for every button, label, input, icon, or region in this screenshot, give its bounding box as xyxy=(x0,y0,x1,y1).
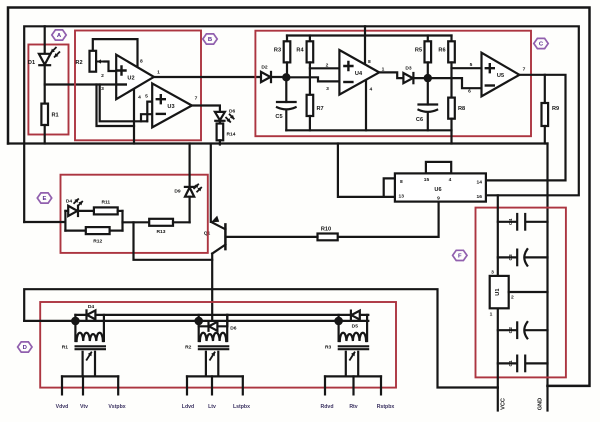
svg-text:Lstpbx: Lstpbx xyxy=(233,404,250,410)
svg-text:R1: R1 xyxy=(52,113,59,119)
U4 output wire xyxy=(379,72,403,78)
R2 terminal bracket xyxy=(187,375,243,377)
E entry wire xyxy=(24,221,65,223)
svg-text:R2: R2 xyxy=(185,345,192,351)
svg-text:F: F xyxy=(458,254,462,260)
svg-text:U2: U2 xyxy=(127,75,134,81)
photodiode D1 xyxy=(39,54,51,65)
svg-text:R12: R12 xyxy=(93,239,102,245)
resistor R5 xyxy=(427,36,429,42)
svg-text:R1: R1 xyxy=(62,345,69,351)
caps left bus lower xyxy=(497,308,499,387)
wire D1-R1 xyxy=(44,65,46,104)
svg-text:Vstpbx: Vstpbx xyxy=(108,404,125,410)
svg-text:A: A xyxy=(57,33,62,39)
svg-text:Ltv: Ltv xyxy=(208,404,216,410)
U4 pin4 wire xyxy=(365,80,367,130)
svg-text:C4: C4 xyxy=(508,218,514,225)
GND stub xyxy=(546,386,548,411)
svg-text:D9: D9 xyxy=(174,189,181,195)
svg-text:Vdvd: Vdvd xyxy=(56,404,69,410)
wire D2-node xyxy=(271,76,286,78)
svg-text:C3: C3 xyxy=(508,254,514,261)
svg-text:D2: D2 xyxy=(261,64,268,70)
R3 core bars xyxy=(339,345,368,347)
R6-R8 vertical wire xyxy=(450,62,452,97)
base wire R10-Q1 xyxy=(228,236,318,238)
potentiometer R2 xyxy=(90,51,97,72)
svg-text:R4: R4 xyxy=(296,48,304,54)
svg-text:R3: R3 xyxy=(325,345,332,351)
node2 junction xyxy=(424,74,432,82)
U5 plus wire xyxy=(452,67,482,69)
R2 primary left wire xyxy=(198,315,200,341)
svg-text:3: 3 xyxy=(326,86,329,92)
red box F xyxy=(476,208,566,378)
wire D3-node2 xyxy=(413,77,427,79)
C bottom rail xyxy=(286,129,451,131)
resistor R14 xyxy=(219,121,221,124)
node1 junction xyxy=(282,73,290,81)
op-amp U5 xyxy=(482,53,520,97)
hex label E xyxy=(37,193,51,203)
resistor R3 xyxy=(286,36,288,42)
svg-text:U4: U4 xyxy=(355,71,363,77)
lower transformer bus xyxy=(24,320,368,322)
R1 primary left wire xyxy=(74,315,76,341)
svg-text:D6: D6 xyxy=(230,326,237,332)
svg-text:D3: D3 xyxy=(405,66,412,72)
svg-text:1: 1 xyxy=(490,312,493,318)
R1 primary right wire xyxy=(103,315,105,341)
svg-text:R13: R13 xyxy=(157,229,166,235)
U3 output wire xyxy=(192,106,220,112)
svg-text:2: 2 xyxy=(511,295,514,301)
U4 minus jog wire xyxy=(286,77,339,81)
svg-text:R9: R9 xyxy=(552,106,559,112)
resistor R13 xyxy=(149,219,173,226)
resistor R10 xyxy=(318,234,338,241)
svg-text:7: 7 xyxy=(195,96,198,102)
gnd right vertical xyxy=(546,144,548,386)
svg-text:8: 8 xyxy=(140,59,143,65)
svg-text:VCC: VCC xyxy=(501,398,507,410)
svg-text:8: 8 xyxy=(400,179,403,185)
svg-text:C: C xyxy=(539,42,544,48)
resistor R9 xyxy=(544,75,546,103)
R2 wiper arrow wire xyxy=(105,62,117,72)
U6 pin9 wire xyxy=(338,202,439,237)
resistor R12 branch xyxy=(65,230,85,232)
main ground bus xyxy=(8,142,548,144)
svg-text:5: 5 xyxy=(470,62,473,68)
svg-text:R5: R5 xyxy=(415,48,422,54)
R1 terminal bracket xyxy=(62,375,118,377)
R2 primary right wire xyxy=(226,315,228,341)
svg-text:4: 4 xyxy=(449,177,452,183)
svg-text:C1: C1 xyxy=(508,360,514,367)
wire R1 bottom xyxy=(44,125,46,144)
R2 secondary wires xyxy=(205,352,207,377)
svg-text:2: 2 xyxy=(326,62,329,68)
diode D2 xyxy=(261,72,270,82)
svg-text:6: 6 xyxy=(146,119,149,125)
svg-text:R6: R6 xyxy=(438,48,445,54)
svg-text:Vtv: Vtv xyxy=(80,404,88,410)
red box D xyxy=(40,302,396,388)
R2 primary coil xyxy=(200,333,226,341)
U1 pin2 wire xyxy=(509,291,548,293)
svg-text:15: 15 xyxy=(424,177,430,183)
R1 secondary wires xyxy=(81,352,83,377)
LED D9 xyxy=(185,186,194,188)
E right node wire xyxy=(121,211,123,231)
svg-text:U1: U1 xyxy=(495,289,501,296)
E left node wire xyxy=(64,211,66,231)
wire D4-R11 xyxy=(78,210,94,212)
hex label A xyxy=(52,30,66,40)
resistor R8 xyxy=(448,98,455,119)
R1 core bars xyxy=(76,345,105,347)
svg-text:C2: C2 xyxy=(508,327,514,334)
transistor Q1 xyxy=(224,224,227,249)
svg-text:2: 2 xyxy=(101,73,104,79)
U4 plus wire xyxy=(310,67,340,69)
svg-text:4: 4 xyxy=(370,87,373,93)
U4 pin8 wire xyxy=(364,26,366,64)
svg-text:8: 8 xyxy=(368,59,371,65)
op-amp U4 xyxy=(339,50,379,95)
svg-text:6: 6 xyxy=(468,88,471,94)
svg-text:3: 3 xyxy=(491,270,494,276)
svg-text:D1: D1 xyxy=(28,60,35,66)
op-amp U2 xyxy=(116,55,154,99)
U2 pin4 wire xyxy=(133,89,135,144)
node A out wire xyxy=(45,83,117,85)
hex label C xyxy=(534,38,548,48)
svg-text:GND: GND xyxy=(538,398,544,410)
upper transformer bus xyxy=(75,314,368,316)
svg-text:Ldvd: Ldvd xyxy=(182,404,194,410)
svg-text:C5: C5 xyxy=(275,114,282,120)
E bottom wire to collector xyxy=(134,222,213,259)
VCC stub xyxy=(497,388,499,411)
R3 primary left wire xyxy=(338,315,340,341)
R3 primary coil xyxy=(340,333,366,341)
U5 output loop wire xyxy=(486,75,566,181)
U2 feedback wires xyxy=(97,85,135,127)
resistor R4 xyxy=(309,36,311,42)
svg-text:D4: D4 xyxy=(66,199,73,205)
resistor R6 xyxy=(450,36,452,42)
hex label F xyxy=(453,250,467,260)
R3 secondary wires xyxy=(345,352,347,377)
R2 core bars xyxy=(199,345,228,347)
svg-text:E: E xyxy=(43,196,47,202)
diode D3 xyxy=(403,73,412,83)
LED D6 xyxy=(215,112,225,120)
D9 bottom wire xyxy=(189,197,191,223)
U6 left bracket wire xyxy=(338,144,395,197)
svg-text:1: 1 xyxy=(157,70,160,76)
resistor R11 xyxy=(94,207,118,214)
svg-text:R8: R8 xyxy=(458,106,465,112)
C top rail xyxy=(287,34,452,36)
R4-R7 vertical wire xyxy=(309,62,311,94)
svg-text:U5: U5 xyxy=(497,73,504,79)
inner VCC top rail xyxy=(24,26,579,222)
svg-text:U6: U6 xyxy=(434,187,441,193)
svg-text:3: 3 xyxy=(101,86,104,92)
mid wire to R13 xyxy=(123,221,150,223)
svg-text:R11: R11 xyxy=(101,200,110,206)
svg-text:U3: U3 xyxy=(167,104,174,110)
caps left bus upper xyxy=(497,195,499,276)
LED D4 xyxy=(65,210,68,212)
capacitor C4 xyxy=(498,221,517,223)
capacitor C2 xyxy=(498,329,517,331)
op-amp U3 xyxy=(152,83,192,127)
resistor R7 xyxy=(307,95,314,116)
R1 primary coil xyxy=(77,333,103,341)
svg-text:R2: R2 xyxy=(75,60,82,66)
svg-text:B: B xyxy=(208,37,212,43)
svg-text:D4: D4 xyxy=(88,304,95,310)
capacitor C5 xyxy=(285,77,287,102)
svg-text:14: 14 xyxy=(477,180,483,186)
D9 wire from bus xyxy=(189,144,191,187)
IC U6 xyxy=(395,173,486,201)
svg-text:C6: C6 xyxy=(416,117,423,123)
R2 top loop wire xyxy=(93,39,138,67)
Q1 emitter wire xyxy=(210,145,212,222)
svg-text:D5: D5 xyxy=(352,324,359,330)
svg-text:13: 13 xyxy=(399,193,405,199)
relay R3 node xyxy=(334,317,343,326)
R14 bottom wire xyxy=(219,140,221,144)
regulator U1 xyxy=(490,276,509,308)
svg-text:R7: R7 xyxy=(317,106,324,112)
U6 tab xyxy=(426,162,451,174)
snubber diode D6 xyxy=(199,315,228,326)
relay R2 node xyxy=(194,317,203,326)
svg-text:R10: R10 xyxy=(321,227,331,233)
relay R1 node xyxy=(71,317,80,326)
wire D1 top xyxy=(44,26,46,54)
R3 primary right wire xyxy=(366,315,368,341)
Q1 collector wire xyxy=(211,254,213,321)
hex label B xyxy=(203,34,217,44)
svg-text:R3: R3 xyxy=(274,48,281,54)
svg-text:5: 5 xyxy=(145,94,148,100)
red box A xyxy=(28,45,68,135)
vcc lower rail xyxy=(24,289,498,387)
svg-text:D: D xyxy=(23,345,27,351)
svg-text:4: 4 xyxy=(138,95,141,101)
svg-text:D6: D6 xyxy=(229,109,236,115)
red box C xyxy=(255,31,531,137)
snubber diode D5 xyxy=(351,311,360,320)
svg-text:7: 7 xyxy=(523,67,526,73)
svg-text:Rstpbx: Rstpbx xyxy=(377,404,395,410)
U2 output wire xyxy=(154,76,261,78)
U5 minus jog wire xyxy=(428,78,482,88)
capacitor C6 xyxy=(427,78,429,104)
capacitor C1 xyxy=(498,362,517,364)
capacitor C3 xyxy=(498,256,517,258)
resistor R1 xyxy=(41,104,48,125)
svg-text:R14: R14 xyxy=(227,132,236,138)
hex label D xyxy=(18,342,32,352)
svg-text:Rtv: Rtv xyxy=(349,404,357,410)
R3 terminal bracket xyxy=(325,375,381,377)
svg-text:16: 16 xyxy=(477,194,483,200)
red box E xyxy=(61,175,208,253)
snubber diode D4 xyxy=(87,310,96,319)
svg-text:Rdvd: Rdvd xyxy=(321,404,334,410)
red box B xyxy=(75,31,201,141)
